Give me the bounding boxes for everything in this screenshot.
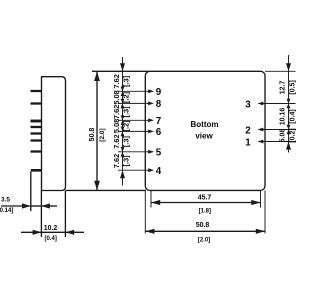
pin 3 marker	[258, 102, 264, 106]
pin 8 marker	[148, 102, 154, 106]
dim 45.7 line	[151, 202, 261, 204]
svg-text:7.62: 7.62	[112, 105, 121, 119]
svg-text:50.8: 50.8	[89, 128, 96, 142]
side view pin stub 8 (bottom, thick)	[31, 169, 42, 172]
side view pin stub 4	[31, 126, 42, 128]
svg-text:5.08: 5.08	[280, 129, 287, 143]
svg-text:2: 2	[245, 125, 251, 136]
svg-text:7.62: 7.62	[112, 74, 121, 88]
extension line from bottom stub left end	[30, 172, 32, 212]
svg-text:[.3]: [.3]	[122, 106, 131, 118]
pin 4 marker	[148, 168, 154, 172]
svg-text:[1.8]: [1.8]	[199, 208, 211, 214]
side view pin stub 7	[31, 150, 42, 152]
pin 7 extension line	[118, 119, 151, 121]
svg-text:12.7: 12.7	[280, 80, 287, 94]
pin 4 extension line	[118, 169, 151, 171]
pin 2 marker	[258, 128, 264, 132]
pin 2 extension line	[261, 129, 296, 131]
left chain top arrow (down)	[120, 63, 125, 71]
top extension line (box top to left)	[92, 70, 149, 72]
dim 3.5 line	[1, 205, 31, 207]
arrows 3.5 dim	[22, 203, 31, 208]
dim 50.8 bottom line	[145, 230, 265, 232]
side view pin stub 1	[31, 90, 42, 92]
bottom view box	[145, 71, 265, 190]
dimension texts	[0, 194, 211, 243]
left chain bottom arrow (up)	[120, 170, 125, 178]
svg-text:7.62: 7.62	[112, 154, 121, 168]
svg-text:4: 4	[156, 166, 162, 177]
svg-text:3.5: 3.5	[1, 197, 10, 204]
side view body	[42, 77, 66, 191]
svg-text:5.08: 5.08	[112, 119, 121, 133]
pin 5 marker	[148, 150, 154, 154]
extension body right edge down	[64, 191, 66, 238]
arrows 50.8 bottom	[145, 229, 154, 234]
svg-text:[.2]: [.2]	[122, 91, 131, 103]
svg-text:[.3]: [.3]	[122, 136, 131, 148]
pin 5 extension line	[118, 151, 151, 153]
pin 9 extension line	[118, 90, 151, 92]
right chain bowties	[287, 99, 291, 109]
svg-text:[2.0]: [2.0]	[99, 128, 106, 141]
pin 6 marker	[148, 130, 154, 134]
arrows 45.7	[151, 200, 160, 205]
box top right extension	[265, 70, 296, 72]
svg-text:Bottom: Bottom	[191, 120, 219, 129]
bottom extensions	[144, 190, 146, 233]
pin 1 marker	[258, 140, 264, 144]
Bottom view label	[191, 120, 219, 141]
side view pin stub 6	[31, 139, 42, 141]
side view bottom edge extension	[66, 189, 147, 191]
pin 9 marker	[148, 89, 154, 93]
pin 6 extension line	[118, 130, 151, 132]
right chain labels	[280, 80, 297, 143]
arrows vertical 50.8	[94, 72, 100, 81]
right chain bottom arrow	[286, 142, 291, 150]
side view pin stub 3	[31, 120, 42, 123]
rotated vertical dim 50.8 text	[89, 128, 106, 142]
svg-text:[0.5]: [0.5]	[290, 80, 297, 94]
pin 8 extension line	[118, 102, 151, 104]
svg-text:[0.14]: [0.14]	[0, 208, 13, 214]
svg-text:view: view	[195, 132, 213, 141]
svg-text:10.2: 10.2	[44, 225, 58, 232]
svg-text:[.3]: [.3]	[122, 75, 131, 87]
pin 7 marker	[148, 118, 154, 122]
svg-text:[2.0]: [2.0]	[198, 238, 210, 244]
vertical dim 50.8 line	[96, 72, 98, 190]
svg-text:7.62: 7.62	[112, 134, 121, 148]
svg-text:7: 7	[156, 116, 162, 127]
svg-text:[0.4]: [0.4]	[45, 236, 57, 242]
svg-text:[.2]: [.2]	[122, 120, 131, 132]
right chain top arrow	[286, 63, 291, 71]
left chain internal bowties	[121, 87, 125, 157]
svg-text:5: 5	[156, 148, 162, 159]
pin 1 extension line	[261, 141, 296, 143]
svg-text:8: 8	[156, 99, 162, 110]
svg-text:6: 6	[156, 127, 162, 138]
dim 10.2 line	[21, 231, 41, 233]
svg-text:[0.2]: [0.2]	[290, 128, 297, 142]
svg-text:3: 3	[245, 99, 251, 110]
arrows 10.2 dim	[33, 230, 42, 235]
side view pin stub 5	[31, 132, 42, 134]
side view pin stub 2	[31, 102, 42, 104]
svg-text:45.7: 45.7	[198, 194, 212, 201]
extension body left edge down	[40, 191, 42, 238]
svg-text:50.8: 50.8	[196, 222, 210, 229]
svg-text:9: 9	[156, 87, 162, 98]
pin number labels left	[156, 87, 252, 177]
left chain vertical	[122, 57, 124, 186]
svg-text:[.3]: [.3]	[122, 155, 131, 167]
svg-text:[0.4]: [0.4]	[290, 109, 297, 123]
svg-text:5.08: 5.08	[112, 90, 121, 104]
right chain vertical	[288, 55, 290, 153]
svg-text:1: 1	[245, 137, 251, 148]
pin 3 extension line	[261, 103, 296, 105]
svg-text:10.16: 10.16	[280, 108, 287, 126]
left chain labels	[112, 74, 130, 168]
